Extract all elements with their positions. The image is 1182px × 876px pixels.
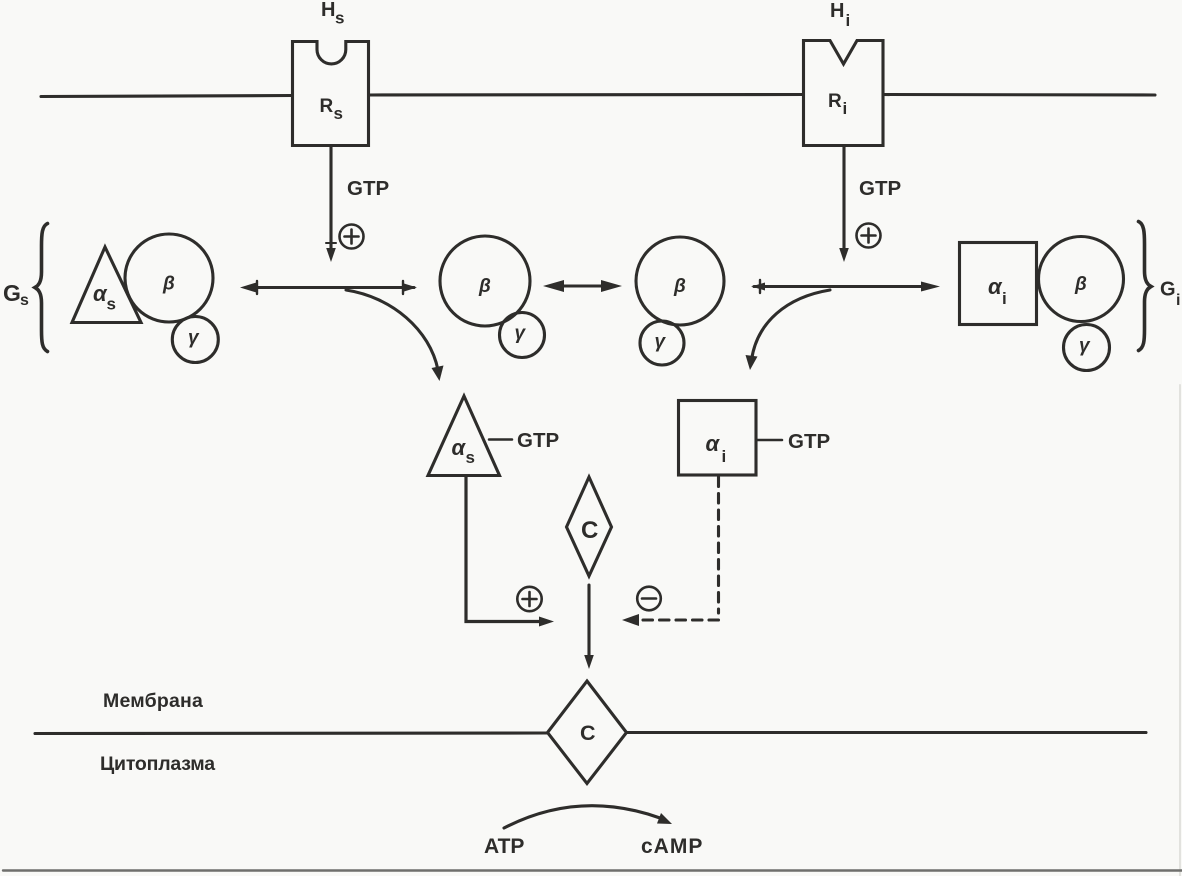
svg-text:i: i [846,11,851,30]
svg-text:α: α [452,435,467,460]
tick to GTP label [489,438,512,441]
GTP arrow from Ri [842,146,845,250]
tick to GTP label [757,439,782,442]
label alpha-i GTP [706,431,727,466]
svg-text:R: R [828,91,842,112]
svg-text:Мембрана: Мембрана [103,690,203,712]
label alpha-s GTP [452,435,475,467]
label Hi [830,0,850,30]
receptor Rs [293,42,369,146]
ATP to cAMP curved arrow [504,806,660,828]
gamma circle 2 [500,313,545,358]
gamma circle 3 [640,321,684,365]
svg-text:ATP: ATP [484,835,524,858]
page edge right faint [1179,385,1181,876]
svg-text:i: i [843,99,848,118]
svg-text:γ: γ [188,328,200,349]
beta circle 4 [1039,237,1124,322]
svg-text:i: i [722,447,727,466]
dashed inhibition arrow from alpha-i [717,477,720,613]
triangle alpha-s with GTP [428,396,500,476]
receptor Ri [804,41,884,146]
brace left of Gs [35,224,48,352]
bottom page rule [3,869,1182,871]
membrane top line right segment [883,93,1155,97]
svg-text:s: s [107,295,116,314]
svg-text:i: i [1002,289,1007,308]
curved arrow to alpha-s GTP [346,290,438,370]
diamond C inactive [567,477,612,576]
membrane top line left segment [41,96,292,97]
svg-text:C: C [581,517,598,544]
svg-text:Цитоплазма: Цитоплазма [100,753,215,775]
GTP arrow from Rs [329,146,332,250]
label alpha-s trimer [93,281,116,314]
label Hs [321,0,344,28]
arrow from diamond C down [587,585,590,660]
membrane bottom line right segment [628,731,1147,734]
plus sign circle stimulation [517,587,541,611]
svg-text:C: C [580,721,596,745]
svg-text:GTP: GTP [347,177,389,200]
membrane top line middle segment [369,93,803,97]
brace right of Gi [1139,222,1152,351]
triangle alpha-s (Gs trimer) [72,247,141,323]
square alpha-i (Gi trimer) [960,243,1037,325]
beta circle 2 [440,236,530,326]
beta circle 1 [125,234,213,322]
svg-text:γ: γ [655,332,667,353]
svg-text:β: β [673,276,686,297]
svg-text:s: s [335,9,344,28]
curved arrow to alpha-i GTP [752,290,831,360]
svg-text:s: s [466,448,475,467]
svg-text:GTP: GTP [517,429,559,452]
svg-text:α: α [706,431,721,456]
svg-text:H: H [830,0,844,22]
svg-text:γ: γ [515,323,527,344]
membrane bottom line left segment [35,731,547,735]
label Gs [3,280,29,309]
svg-text:β: β [478,276,491,297]
gamma circle 1 [172,317,218,363]
elbow arrow from alpha-s to C [466,477,545,622]
svg-text:s: s [334,104,343,123]
gamma circle 4 [1064,325,1110,371]
svg-text:GTP: GTP [859,177,901,200]
svg-text:G: G [1160,279,1176,301]
minus sign circle inhibition [637,587,661,611]
beta circle 3 [636,237,724,325]
svg-text:i: i [1176,292,1180,309]
diamond C active on membrane [548,681,627,784]
svg-text:β: β [162,274,175,295]
svg-text:γ: γ [1079,336,1091,357]
label alpha-i trimer [988,274,1007,308]
label Ri [828,91,847,118]
svg-text:R: R [320,96,334,117]
label Gi [1160,279,1180,310]
svg-text:G: G [3,280,21,306]
double-headed arrow center [556,284,609,287]
double arrow beta-gamma to Gi [754,285,931,288]
svg-text:s: s [20,292,29,309]
svg-text:cAMP: cAMP [641,835,703,858]
svg-text:GTP: GTP [788,430,830,453]
svg-text:H: H [321,0,335,21]
double arrow Gs to beta-gamma [246,286,414,289]
label Rs [320,96,343,123]
svg-text:α: α [988,274,1003,299]
square alpha-i with GTP [679,401,757,476]
plus sign circle under Rs [340,225,364,249]
plus sign circle under Ri [857,224,881,248]
svg-text:β: β [1074,274,1087,295]
